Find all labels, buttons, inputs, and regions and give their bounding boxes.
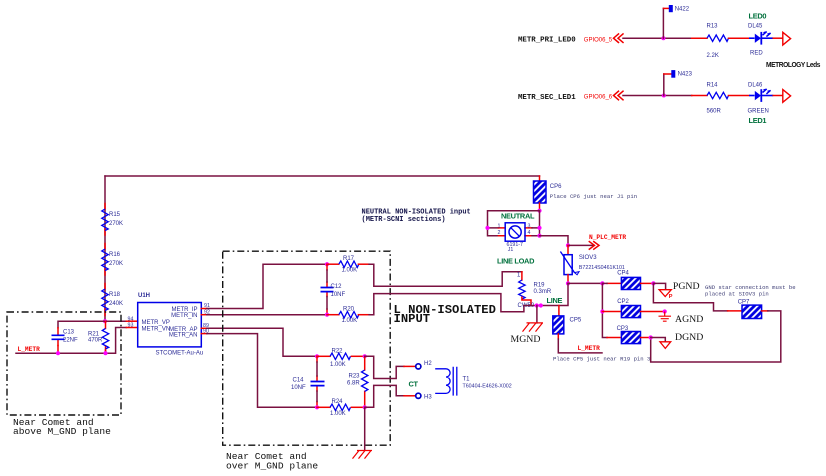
capacitor CP6 (hatched) bbox=[534, 181, 547, 203]
svg-text:METR_AN: METR_AN bbox=[169, 333, 198, 339]
svg-text:CP3: CP3 bbox=[617, 326, 629, 332]
wire CP column vertical bbox=[602, 283, 607, 337]
wire red stub CP3 left bbox=[607, 337, 621, 339]
svg-text:R24: R24 bbox=[332, 399, 344, 405]
wire MGND drop bbox=[536, 306, 538, 323]
svg-text:240K: 240K bbox=[109, 301, 123, 307]
svg-text:U1H: U1H bbox=[138, 293, 150, 299]
wire pin89 stub bbox=[201, 327, 207, 329]
ground MGND (chassis) bbox=[523, 323, 544, 332]
wire LINE row bbox=[524, 283, 568, 305]
svg-text:STCOMET-Au-Au: STCOMET-Au-Au bbox=[156, 351, 204, 357]
wire red stub CP2 left bbox=[602, 311, 621, 313]
node C12 top junction bbox=[325, 262, 329, 266]
wire pin91 to C12/R17 top bbox=[207, 264, 327, 308]
svg-text:2.2K: 2.2K bbox=[707, 53, 719, 59]
wire red stub CP5 bottom bbox=[557, 334, 559, 339]
node R24 left junction bbox=[315, 405, 319, 409]
svg-text:470R: 470R bbox=[88, 337, 103, 343]
svg-text:Place CP5 just near R19 pin 3: Place CP5 just near R19 pin 3 bbox=[553, 356, 650, 363]
wire up to N423 bbox=[663, 74, 665, 96]
svg-text:GREEN: GREEN bbox=[748, 109, 769, 115]
svg-text:L_METR: L_METR bbox=[578, 345, 601, 352]
svg-text:T60404-E4626-X002: T60404-E4626-X002 bbox=[463, 383, 512, 389]
wire up to N422 bbox=[662, 8, 664, 38]
node C12 bottom junction bbox=[325, 313, 329, 317]
svg-text:over M_GND plane: over M_GND plane bbox=[226, 460, 318, 471]
svg-text:0.3mR: 0.3mR bbox=[534, 289, 552, 295]
resistor R24 bbox=[317, 406, 330, 408]
off-page arrow right (row 2) bbox=[783, 90, 791, 103]
off-page chevron GPIO06_6 bbox=[614, 91, 624, 100]
svg-text:4: 4 bbox=[528, 230, 531, 236]
capacitor CP5 (hatched) bbox=[553, 316, 564, 334]
wire pin90 to R24 row bbox=[207, 334, 317, 408]
node N422 junction bbox=[661, 36, 665, 40]
resistor R23 bbox=[364, 356, 366, 407]
wire L_METR rail bbox=[16, 328, 126, 354]
transformer T1 bbox=[435, 367, 457, 396]
wire PGND node to CP7 bbox=[653, 283, 727, 311]
wire to PGND bbox=[653, 283, 665, 289]
resistor R21 bbox=[105, 321, 107, 353]
resistor R16 bbox=[102, 249, 108, 271]
svg-text:CP2: CP2 bbox=[617, 299, 629, 305]
wire top rail bbox=[105, 175, 540, 177]
svg-text:1.00K: 1.00K bbox=[342, 267, 358, 273]
svg-text:1: 1 bbox=[498, 224, 501, 230]
LED DL45 bbox=[749, 31, 773, 44]
node divider/R21/C13/pin94 junction bbox=[103, 319, 107, 323]
svg-text:1.00K: 1.00K bbox=[330, 411, 346, 417]
resistor R20 bbox=[327, 314, 339, 316]
svg-text:METR_SEC_LED1: METR_SEC_LED1 bbox=[518, 94, 576, 102]
node PGND junction bbox=[651, 281, 655, 285]
svg-text:10NF: 10NF bbox=[291, 385, 306, 391]
svg-text:2: 2 bbox=[498, 230, 501, 236]
svg-text:N_PLC_METR: N_PLC_METR bbox=[589, 234, 626, 241]
wire red stub pin93 bbox=[126, 327, 137, 329]
svg-text:T1: T1 bbox=[463, 376, 471, 382]
wire L_METR tail bbox=[558, 339, 602, 353]
wire pin90 stub bbox=[201, 333, 207, 335]
wire red stub CP3 right bbox=[641, 337, 651, 339]
node R22 right junction bbox=[363, 354, 367, 358]
svg-text:R15: R15 bbox=[109, 212, 121, 218]
svg-text:R13: R13 bbox=[707, 23, 719, 29]
wire red R14 to DL46 bbox=[729, 95, 750, 97]
svg-text:N423: N423 bbox=[678, 72, 693, 78]
capacitor CP7 (hatched) bbox=[742, 305, 762, 318]
resistor R15 bbox=[102, 209, 108, 231]
varistor SIOV3 bbox=[567, 245, 569, 254]
svg-text:3: 3 bbox=[528, 224, 531, 230]
capacitor C13 bbox=[57, 328, 59, 346]
node AGND junction bbox=[663, 309, 667, 313]
svg-text:METR_VP: METR_VP bbox=[142, 320, 170, 326]
svg-text:(METR-SCNI sections): (METR-SCNI sections) bbox=[362, 216, 446, 224]
wire pin92 to C12/R20 bottom bbox=[207, 314, 327, 316]
capacitor C12 bbox=[326, 264, 328, 315]
wire red stub CP5 top bbox=[558, 306, 560, 316]
svg-text:LINE: LINE bbox=[547, 296, 563, 305]
svg-text:P: P bbox=[669, 294, 673, 300]
ground DGND bbox=[660, 342, 671, 349]
connector J1 6191-7 bbox=[505, 223, 525, 241]
svg-text:C12: C12 bbox=[331, 284, 343, 290]
node MGND tap junction bbox=[535, 303, 539, 307]
wire red stub C13 bottom / R21 bottom bbox=[58, 346, 106, 354]
svg-text:R14: R14 bbox=[707, 82, 719, 88]
wire red stubs J1 pins 3,4 bbox=[525, 228, 532, 236]
svg-text:PGND: PGND bbox=[673, 281, 700, 292]
net tie N423 bbox=[671, 70, 675, 78]
svg-text:METR_PRI_LED0: METR_PRI_LED0 bbox=[518, 37, 576, 45]
off-page arrow right (row 1) bbox=[783, 32, 791, 45]
svg-text:CP5: CP5 bbox=[570, 318, 582, 324]
wire red stub CP6 bottom bbox=[539, 203, 541, 211]
svg-text:R20: R20 bbox=[343, 306, 355, 312]
node SIOV3 top junction bbox=[566, 243, 570, 247]
node C13 bottom junction bbox=[56, 351, 60, 355]
svg-text:METR_VN: METR_VN bbox=[142, 326, 171, 332]
resistor R17 bbox=[327, 263, 339, 265]
svg-text:R22: R22 bbox=[332, 349, 344, 355]
wire red to N423 tie bbox=[664, 73, 672, 75]
svg-text:placed at SIOV3 pin: placed at SIOV3 pin bbox=[705, 291, 769, 298]
wire red stub CP4 left bbox=[607, 282, 621, 284]
off-page chevron GPIO06_5 bbox=[614, 34, 624, 43]
node J1 pin3 junction bbox=[537, 226, 541, 230]
svg-text:DL46: DL46 bbox=[748, 82, 763, 88]
node J1 pin1 junction bbox=[485, 226, 489, 230]
svg-text:LED0: LED0 bbox=[749, 11, 767, 20]
svg-text:CP7: CP7 bbox=[738, 300, 750, 306]
svg-text:GPIO06_6: GPIO06_6 bbox=[584, 95, 613, 101]
svg-text:560R: 560R bbox=[707, 109, 722, 115]
svg-text:H3: H3 bbox=[424, 394, 432, 400]
svg-text:DGND: DGND bbox=[675, 332, 703, 343]
wire pin92 stub bbox=[201, 314, 207, 316]
LED DL46 bbox=[749, 89, 773, 102]
ground (chassis) below box bbox=[353, 451, 373, 459]
wire CP7 right loop to DGND node bbox=[651, 311, 781, 362]
wire to H3 port bbox=[365, 385, 404, 407]
svg-text:C14: C14 bbox=[293, 377, 305, 383]
svg-text:J1: J1 bbox=[508, 247, 514, 253]
wire red stub CP7 right bbox=[762, 310, 768, 312]
wire red stub CP7 left bbox=[728, 310, 742, 312]
dashed box Near Comet above M_GND bbox=[7, 312, 121, 415]
svg-text:METR_IP: METR_IP bbox=[171, 307, 197, 313]
resistor R13 bbox=[707, 35, 728, 41]
net tie N422 bbox=[669, 5, 673, 12]
svg-text:R18: R18 bbox=[109, 292, 121, 298]
wire to N_PLC_METR bbox=[568, 244, 594, 246]
wire stub red left of R13 bbox=[692, 37, 707, 39]
node R21 bottom junction bbox=[103, 351, 107, 355]
node CP6/J1 junction bbox=[537, 209, 541, 213]
svg-text:R16: R16 bbox=[109, 252, 121, 258]
capacitor CP2 (hatched) bbox=[621, 306, 640, 318]
wire red to off-page arrow bbox=[773, 37, 782, 39]
node LINE junction bbox=[539, 303, 543, 307]
capacitor C14 bbox=[316, 356, 318, 407]
svg-text:AGND: AGND bbox=[675, 314, 703, 325]
node CP column top junction bbox=[600, 281, 604, 285]
svg-text:above M_GND plane: above M_GND plane bbox=[13, 426, 111, 437]
wire to DGND bbox=[651, 338, 666, 342]
wire stub red left of R14 bbox=[692, 95, 707, 97]
svg-text:GPIO06_5: GPIO06_5 bbox=[584, 37, 613, 43]
wire red stub CP6 top bbox=[539, 176, 541, 181]
resistor R18 bbox=[102, 289, 108, 311]
dashed box Near Comet over M_GND bbox=[223, 251, 391, 445]
svg-text:H2: H2 bbox=[424, 361, 432, 367]
wire red stubs J1 pins 1,2 bbox=[499, 228, 506, 236]
node R24 right junction bbox=[363, 405, 367, 409]
ground PGND bbox=[659, 290, 671, 297]
svg-text:10NF: 10NF bbox=[331, 292, 346, 298]
svg-text:SIOV3: SIOV3 bbox=[579, 255, 597, 261]
wire GPIO06_6 to R14 bbox=[623, 95, 692, 97]
svg-text:CP4: CP4 bbox=[617, 270, 629, 276]
svg-text:RED: RED bbox=[750, 51, 763, 57]
svg-text:Place CP6 just near J1 pin: Place CP6 just near J1 pin bbox=[550, 193, 637, 200]
svg-text:MGND: MGND bbox=[511, 334, 541, 345]
svg-text:1.00K: 1.00K bbox=[330, 362, 346, 368]
wire red R13 to DL45 bbox=[729, 37, 750, 39]
svg-text:CT: CT bbox=[409, 379, 419, 388]
wire J1 bypass loop bbox=[488, 211, 540, 236]
wire pin91 stub bbox=[201, 308, 207, 310]
svg-text:NEUTRAL: NEUTRAL bbox=[501, 211, 535, 220]
wire divider vertical bbox=[104, 176, 106, 321]
node SIOV3 bottom junction bbox=[566, 281, 570, 285]
svg-text:1.00K: 1.00K bbox=[342, 318, 358, 324]
resistor R22 bbox=[317, 355, 330, 357]
node CP2 tap junction bbox=[600, 309, 604, 313]
resistor R19 bbox=[521, 272, 523, 280]
wire red to N422 tie bbox=[663, 7, 669, 9]
svg-text:R17: R17 bbox=[343, 256, 355, 262]
svg-text:L_METR: L_METR bbox=[18, 346, 41, 353]
svg-text:C13: C13 bbox=[63, 329, 75, 335]
wire R17 right to LINE LOAD top bbox=[369, 264, 522, 286]
svg-text:LINE LOAD: LINE LOAD bbox=[497, 257, 535, 266]
op-amp U1H bbox=[138, 303, 202, 347]
svg-text:22NF: 22NF bbox=[63, 337, 78, 343]
wire GPIO06_5 to R13 bbox=[623, 37, 692, 39]
port H3 bbox=[416, 393, 421, 398]
svg-text:94: 94 bbox=[128, 316, 134, 322]
wire red stub CP2 right bbox=[641, 311, 665, 313]
svg-text:CP6: CP6 bbox=[550, 184, 562, 190]
svg-text:INPUT: INPUT bbox=[394, 312, 431, 326]
svg-text:R23: R23 bbox=[349, 373, 361, 379]
node DGND junction bbox=[649, 335, 653, 339]
wire J1 pin4 to SIOV3 top bbox=[540, 236, 569, 246]
svg-text:DL45: DL45 bbox=[748, 23, 763, 29]
wire pin89 to R22 row bbox=[207, 328, 317, 356]
wire SIOV3 bottom to CP column bbox=[568, 282, 602, 284]
node R22 left junction bbox=[315, 354, 319, 358]
ground AGND bbox=[659, 312, 672, 322]
wire to H2 port bbox=[365, 356, 404, 378]
svg-text:LED1: LED1 bbox=[749, 116, 767, 125]
wire red stub CP4 right bbox=[641, 282, 654, 284]
svg-text:N422: N422 bbox=[675, 6, 690, 12]
svg-text:270K: 270K bbox=[109, 261, 123, 267]
svg-text:93: 93 bbox=[128, 323, 134, 329]
capacitor CP4 (hatched) bbox=[621, 277, 640, 289]
wire red stubs on divider bbox=[104, 204, 106, 316]
wire junction to METR_VP pin94 bbox=[58, 321, 126, 328]
svg-text:R19: R19 bbox=[534, 283, 546, 289]
wire red to off-page arrow row2 bbox=[773, 95, 782, 97]
wire MGND drop from R24 junction bbox=[364, 407, 366, 450]
wire R20 right to LINE bottom bbox=[369, 294, 524, 315]
node J1 pin4 junction bbox=[537, 234, 541, 238]
capacitor CP3 (hatched) bbox=[621, 332, 640, 344]
svg-text:METROLOGY Leds: METROLOGY Leds bbox=[766, 60, 820, 69]
port H2 bbox=[416, 364, 421, 369]
svg-text:METR_IN: METR_IN bbox=[171, 313, 197, 319]
node N423 junction bbox=[662, 94, 666, 98]
off-page chevron N_PLC_METR bbox=[589, 242, 599, 250]
svg-text:6.8R: 6.8R bbox=[347, 381, 360, 387]
resistor R14 bbox=[707, 92, 728, 98]
svg-text:270K: 270K bbox=[109, 221, 123, 227]
